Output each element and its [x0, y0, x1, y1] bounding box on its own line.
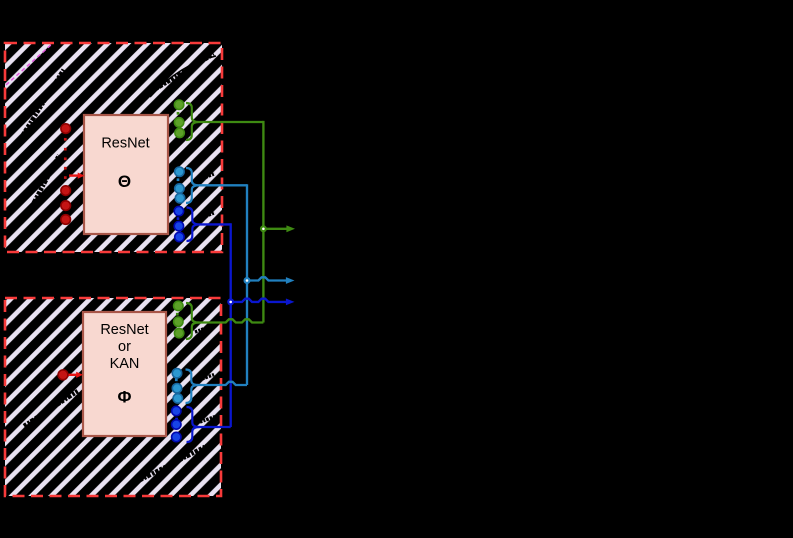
svg-text:ResNet: ResNet: [100, 322, 148, 338]
svg-text:or: or: [118, 339, 131, 355]
svg-text:Θ: Θ: [118, 172, 131, 191]
svg-text:Φ: Φ: [118, 388, 132, 407]
svg-text:ResNet: ResNet: [101, 136, 149, 152]
svg-text:KAN: KAN: [110, 356, 140, 372]
